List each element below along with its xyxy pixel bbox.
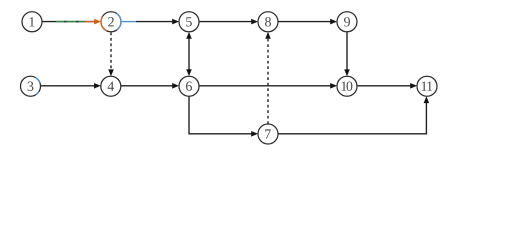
wire edge 6-7 elbow	[189, 96, 258, 136]
node 5	[179, 12, 199, 32]
node 8	[258, 12, 278, 32]
wire dashed edge 7-8	[265, 32, 271, 124]
node 7	[258, 124, 278, 144]
wire edge 4-6	[121, 83, 179, 89]
wire edge 8-9	[278, 19, 337, 25]
wire edge 5-8	[199, 19, 258, 25]
node 6	[179, 76, 199, 96]
wire double edge 5-6	[186, 32, 192, 76]
wire edge 3-4	[41, 83, 101, 89]
node 4	[101, 76, 121, 96]
node 2	[101, 12, 121, 32]
node 3	[21, 76, 41, 96]
node 11	[417, 76, 437, 96]
wire dashed edge 2-4	[108, 32, 114, 76]
wire edge 1-2	[42, 19, 101, 25]
wire edge 7-11 elbow	[278, 96, 429, 134]
wire edge 6-10	[199, 83, 337, 89]
node 9	[337, 12, 357, 32]
wire edge 2-5	[121, 19, 179, 25]
node 10	[337, 76, 357, 96]
node 1	[22, 12, 42, 32]
wire edge 10-11	[357, 83, 417, 89]
wire edge 9-10	[344, 32, 350, 76]
